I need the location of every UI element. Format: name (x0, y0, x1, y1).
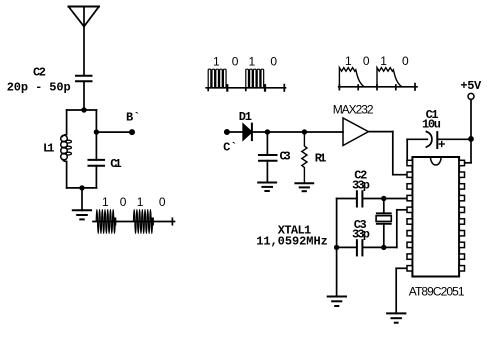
svg-text:20p - 50p: 20p - 50p (7, 81, 71, 95)
svg-text:0: 0 (120, 195, 127, 209)
svg-text:MAX232: MAX232 (333, 103, 374, 117)
svg-text:1: 1 (380, 54, 387, 68)
svg-text:AT89C2051: AT89C2051 (409, 285, 465, 299)
svg-text:1: 1 (102, 195, 109, 209)
svg-text:R1: R1 (315, 151, 327, 165)
svg-text:1: 1 (137, 195, 144, 209)
svg-text:1: 1 (213, 54, 220, 68)
svg-text:1: 1 (249, 54, 256, 68)
svg-text:10u: 10u (422, 118, 441, 132)
svg-text:11,0592MHz: 11,0592MHz (256, 235, 328, 249)
svg-text:0: 0 (363, 54, 370, 68)
svg-text:L1: L1 (43, 142, 55, 156)
svg-text:B`: B` (126, 111, 140, 125)
svg-text:0: 0 (270, 54, 277, 68)
svg-text:33p: 33p (352, 179, 370, 193)
svg-text:+5V: +5V (460, 79, 482, 93)
svg-text:C1: C1 (110, 157, 122, 171)
svg-text:0: 0 (159, 195, 166, 209)
svg-text:D1: D1 (239, 110, 252, 124)
svg-text:C3: C3 (280, 150, 291, 164)
svg-text:1: 1 (345, 54, 352, 68)
svg-text:0: 0 (402, 54, 409, 68)
svg-text:0: 0 (232, 54, 239, 68)
svg-text:C2: C2 (33, 66, 46, 80)
svg-text:C`: C` (223, 141, 237, 155)
svg-text:33p: 33p (352, 227, 370, 241)
